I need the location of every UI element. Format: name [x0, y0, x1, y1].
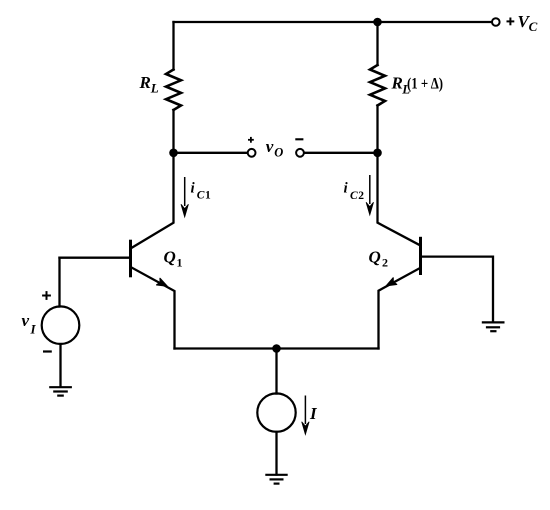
wire Q2 base lead to right ground — [421, 257, 494, 322]
wire resistor RL to left collector node — [172, 110, 174, 153]
wire current source to bottom ground — [275, 432, 277, 475]
node top rail junction — [373, 18, 382, 27]
label VC — [518, 12, 538, 34]
svg-text:v: v — [22, 311, 30, 330]
wire bottom emitter rail — [175, 347, 379, 349]
svg-text:R: R — [139, 73, 151, 92]
svg-text:C: C — [197, 190, 205, 202]
svg-text:(1 + Δ): (1 + Δ) — [407, 75, 443, 92]
svg-text:1: 1 — [205, 190, 211, 202]
wire resistor RL(1+delta) to right collector node — [376, 106, 378, 153]
label Q2 — [369, 248, 389, 270]
label RL(1+delta) — [391, 73, 444, 96]
transistor Q2 base bar — [419, 237, 422, 275]
svg-text:2: 2 — [358, 190, 364, 202]
minus sign at vO terminal — [295, 138, 303, 140]
svg-text:Q: Q — [369, 248, 381, 267]
terminal +VC open circle — [492, 18, 500, 26]
svg-text:v: v — [266, 137, 274, 156]
svg-text:1: 1 — [177, 256, 183, 270]
wire vI source bottom lead to ground — [59, 344, 61, 387]
current source I circle — [257, 393, 295, 431]
svg-text:I: I — [309, 404, 318, 423]
plus sign of +VC label — [507, 18, 515, 26]
ground right of Q2 — [482, 322, 505, 331]
label iC1 — [191, 180, 212, 201]
current arrow iC1 — [181, 177, 188, 217]
wire top supply rail — [174, 21, 492, 23]
label vI — [22, 311, 37, 337]
svg-text:I: I — [30, 322, 37, 337]
wire Q2 emitter to bottom rail — [379, 268, 420, 348]
minus sign at vI source — [43, 350, 52, 352]
svg-text:i: i — [344, 180, 349, 196]
wire left collector drop to resistor — [172, 22, 174, 70]
label vO — [266, 137, 284, 160]
plus sign at vI source — [42, 291, 51, 300]
node right collector — [373, 149, 382, 158]
source vI circle — [42, 306, 80, 344]
wire Q2 collector — [378, 153, 420, 245]
wire left collector node to plus output terminal — [174, 152, 248, 154]
plus sign at vO terminal — [248, 137, 254, 143]
resistor RL — [166, 70, 181, 111]
node bottom emitter junction — [272, 344, 281, 353]
current arrow iC2 — [366, 175, 373, 215]
terminal vO minus open circle — [296, 149, 304, 157]
label RL — [139, 73, 159, 95]
svg-text:i: i — [191, 180, 196, 196]
ground below current source — [265, 475, 287, 484]
transistor Q1 emitter arrowhead — [157, 278, 168, 286]
resistor RL(1+delta) — [370, 65, 385, 106]
svg-text:C: C — [529, 19, 538, 34]
terminal vO plus open circle — [248, 149, 256, 157]
svg-text:L: L — [150, 81, 159, 96]
current arrow I — [302, 396, 309, 435]
wire bottom node to current source — [275, 349, 277, 394]
label Q1 — [164, 248, 183, 270]
transistor Q2 emitter arrowhead — [386, 278, 396, 286]
wire vI source top lead — [58, 258, 60, 307]
wire right collector drop to resistor — [376, 22, 378, 65]
wire Q1 collector — [132, 153, 174, 248]
svg-text:O: O — [274, 146, 283, 160]
svg-text:2: 2 — [382, 256, 388, 270]
wire minus output terminal to right collector node — [304, 152, 378, 154]
svg-text:Q: Q — [164, 248, 176, 267]
label iC2 — [344, 180, 365, 202]
svg-text:C: C — [350, 190, 358, 202]
ground below vI — [49, 387, 72, 395]
wire Q1 base lead — [60, 257, 131, 259]
svg-text:R: R — [391, 73, 403, 92]
transistor Q1 base bar — [129, 240, 132, 278]
wire Q1 emitter to bottom rail — [132, 268, 175, 349]
node left collector — [169, 149, 178, 158]
